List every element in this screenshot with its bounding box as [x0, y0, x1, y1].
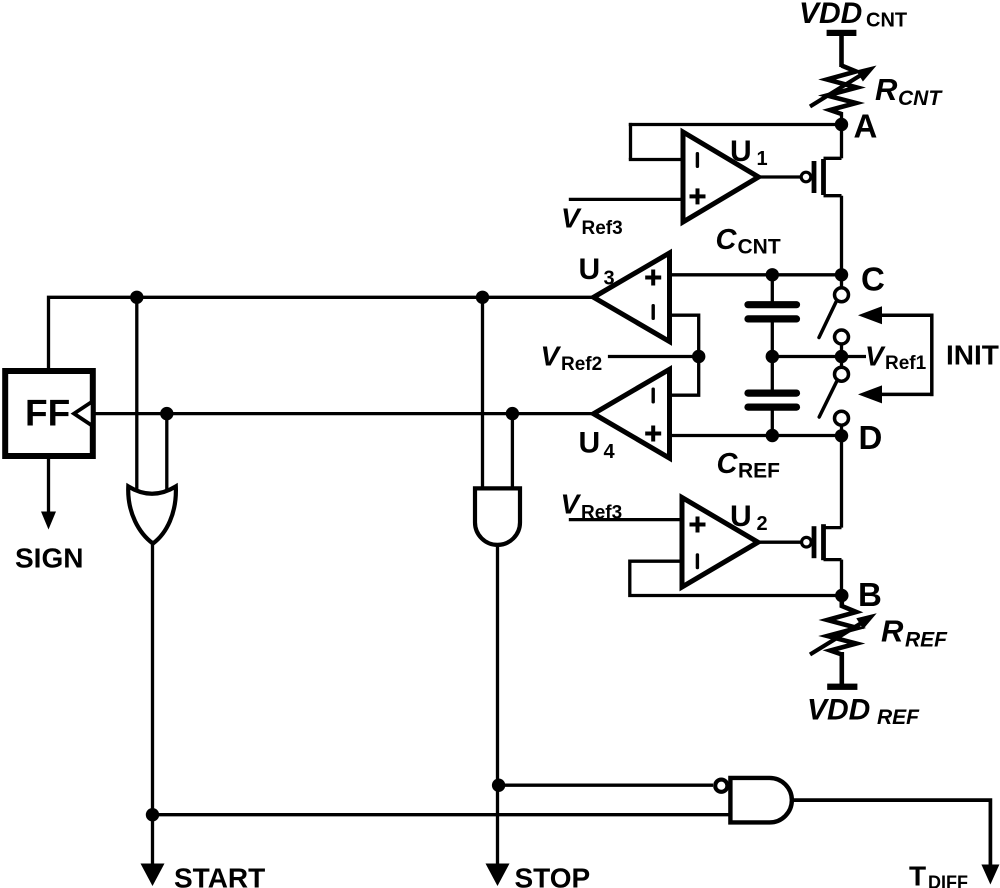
wire U2 feedback from node B — [630, 561, 842, 595]
wire U4 output bus (clock) — [95, 412, 595, 415]
arrow STOP — [486, 864, 510, 887]
label C_CNT — [716, 224, 781, 259]
svg-text:R: R — [881, 614, 904, 649]
label U1 — [730, 135, 768, 170]
label U2 — [730, 500, 768, 535]
svg-text:D: D — [859, 419, 883, 456]
node B junction dot — [835, 589, 848, 602]
wire U3 output bus (top) — [49, 297, 595, 369]
wire C_REF to node D — [771, 410, 774, 436]
junction dot clock bus / AND input — [506, 407, 519, 420]
svg-text:C: C — [716, 224, 738, 256]
svg-text:V: V — [561, 203, 582, 234]
wire S1 to node V_Ref1 — [840, 344, 843, 357]
wire FF SIGN output — [47, 456, 50, 515]
svg-text:Ref2: Ref2 — [561, 354, 602, 375]
junction dot capacitor mid node — [766, 350, 779, 363]
svg-text:4: 4 — [604, 441, 616, 463]
wire STOP to NAND inverted input — [499, 784, 713, 787]
svg-text:U: U — [579, 427, 601, 460]
svg-text:REF: REF — [877, 706, 920, 729]
wire U2 output to Q2 gate — [757, 541, 802, 544]
wire node V_Ref1 to switch S2 — [840, 357, 843, 369]
resistor R_CNT — [810, 66, 877, 115]
capacitor C_CNT — [748, 305, 797, 319]
op-amp U2 — [682, 498, 758, 588]
AND gate (STOP) — [475, 488, 520, 545]
wire OR gate left input — [135, 297, 138, 496]
svg-text:U: U — [579, 253, 601, 286]
wire START to NAND input — [153, 813, 732, 816]
arrow SIGN — [41, 512, 56, 530]
wire V_Ref2 — [608, 355, 699, 358]
resistor R_REF — [810, 596, 877, 655]
wire U1 feedback to inverting input — [629, 158, 683, 161]
svg-text:SIGN: SIGN — [15, 543, 83, 574]
label R_CNT — [875, 72, 943, 110]
wire Q2 source to node B — [840, 560, 843, 597]
wire node D to Q2 drain — [840, 436, 843, 528]
wire AND output / STOP line — [496, 545, 499, 866]
wire node C horizontal — [670, 273, 842, 276]
junction dot top bus / OR input — [130, 291, 143, 304]
svg-text:C: C — [717, 448, 739, 480]
svg-text:U: U — [730, 500, 752, 533]
label V_Ref3 (top) — [561, 203, 623, 240]
junction dot C_REF bottom — [766, 429, 779, 442]
node V_Ref1 junction dot — [835, 350, 848, 363]
svg-text:FF: FF — [25, 393, 70, 434]
wire V_Ref2 node to U4 inverting input — [670, 357, 699, 396]
arrow START — [141, 864, 165, 887]
svg-text:VDD: VDD — [807, 694, 870, 727]
wire AND gate right input — [511, 414, 514, 492]
svg-text:REF: REF — [905, 629, 948, 652]
wire mid node to C_REF — [771, 357, 774, 392]
svg-text:STOP: STOP — [515, 863, 591, 888]
svg-text:Ref3: Ref3 — [582, 218, 623, 239]
wire U3 inverting input to V_Ref2 node — [670, 315, 699, 356]
svg-text:START: START — [174, 863, 265, 888]
svg-text:CNT: CNT — [866, 10, 907, 32]
wire Q1 drain to node C — [840, 196, 843, 276]
power bar VDD_REF — [827, 684, 857, 690]
svg-text:VDD: VDD — [799, 0, 862, 30]
wire T_DIFF output — [792, 800, 991, 866]
wire OR gate right input — [165, 414, 168, 496]
node D junction dot — [835, 429, 848, 442]
junction dot C_CNT top — [766, 268, 779, 281]
svg-text:2: 2 — [757, 513, 768, 535]
wire node C to switch S1 — [840, 275, 843, 288]
capacitor C_REF — [748, 393, 797, 407]
label V_Ref2 — [541, 341, 603, 376]
wire V_Ref3 to U1 noninverting input — [569, 198, 683, 201]
junction dot START / NAND input — [146, 808, 159, 821]
switch S2 (INIT, V_Ref1 to node D) — [819, 367, 848, 425]
wire node D horizontal — [670, 434, 842, 437]
power bar VDD_CNT — [827, 30, 857, 36]
label C_REF — [717, 448, 781, 483]
svg-text:C: C — [861, 261, 885, 298]
op-amp U4 — [594, 369, 670, 458]
node V_Ref2 junction dot — [692, 350, 705, 363]
label V_Ref1 — [865, 341, 927, 375]
wire U1 feedback vertical — [629, 123, 632, 160]
svg-text:Ref1: Ref1 — [885, 353, 927, 374]
label U3 — [579, 253, 615, 290]
op-amp U1 — [683, 132, 759, 222]
node A junction dot — [835, 118, 848, 131]
wire S2 to node D — [840, 425, 843, 437]
label U4 — [579, 427, 616, 464]
switch S1 (INIT, node C to V_Ref1) — [819, 288, 849, 344]
svg-text:CNT: CNT — [898, 87, 943, 110]
svg-text:DIFF: DIFF — [928, 873, 968, 888]
wire C_CNT to mid node — [771, 322, 774, 359]
svg-text:A: A — [854, 108, 878, 145]
label V_Ref3 (bottom) — [561, 489, 623, 524]
svg-text:1: 1 — [757, 148, 768, 170]
wire R_CNT to node A — [840, 112, 843, 128]
svg-text:REF: REF — [738, 460, 780, 483]
svg-text:CNT: CNT — [738, 236, 781, 259]
svg-text:V: V — [541, 341, 562, 372]
wire node A to Q1 source — [840, 125, 843, 159]
wire mid node to V_Ref1 switch — [772, 355, 866, 358]
arrow T_DIFF — [981, 865, 999, 885]
wire V_Ref3 to U2 noninverting input — [569, 518, 682, 521]
svg-text:B: B — [858, 576, 882, 613]
svg-text:INIT: INIT — [946, 340, 999, 371]
node C junction dot — [835, 268, 848, 281]
label R_REF — [881, 614, 948, 652]
wire node A horizontal — [629, 123, 842, 126]
transistor Q2 (PMOS) — [802, 524, 842, 560]
label T_DIFF — [909, 860, 968, 888]
svg-text:T: T — [909, 860, 926, 888]
svg-text:V: V — [865, 341, 886, 372]
svg-text:U: U — [730, 135, 752, 168]
wire R_REF to VDD_REF bar — [839, 652, 844, 684]
op-amp U3 — [594, 253, 670, 342]
flip-flop FF — [5, 371, 93, 456]
junction dot clock bus / OR input — [160, 407, 173, 420]
AND gate T_DIFF (inverted top input) — [715, 778, 792, 823]
svg-text:V: V — [561, 489, 582, 520]
label VDD_REF — [807, 694, 920, 730]
INIT control arrows and bracket — [858, 306, 934, 403]
wire AND gate left input — [481, 297, 484, 492]
wire VDD_CNT bar to R_CNT — [839, 35, 844, 67]
junction dot STOP / NAND input — [492, 779, 505, 792]
junction dot top bus / AND input — [476, 291, 489, 304]
svg-text:R: R — [875, 72, 898, 107]
transistor Q1 (PMOS) — [801, 158, 841, 195]
OR gate (START) — [128, 486, 176, 543]
label VDD_CNT — [799, 0, 907, 32]
wire OR output / START line — [151, 544, 154, 867]
wire node C to C_CNT — [771, 275, 774, 302]
svg-text:3: 3 — [604, 268, 615, 290]
wire U1 output to Q1 gate — [757, 175, 801, 178]
